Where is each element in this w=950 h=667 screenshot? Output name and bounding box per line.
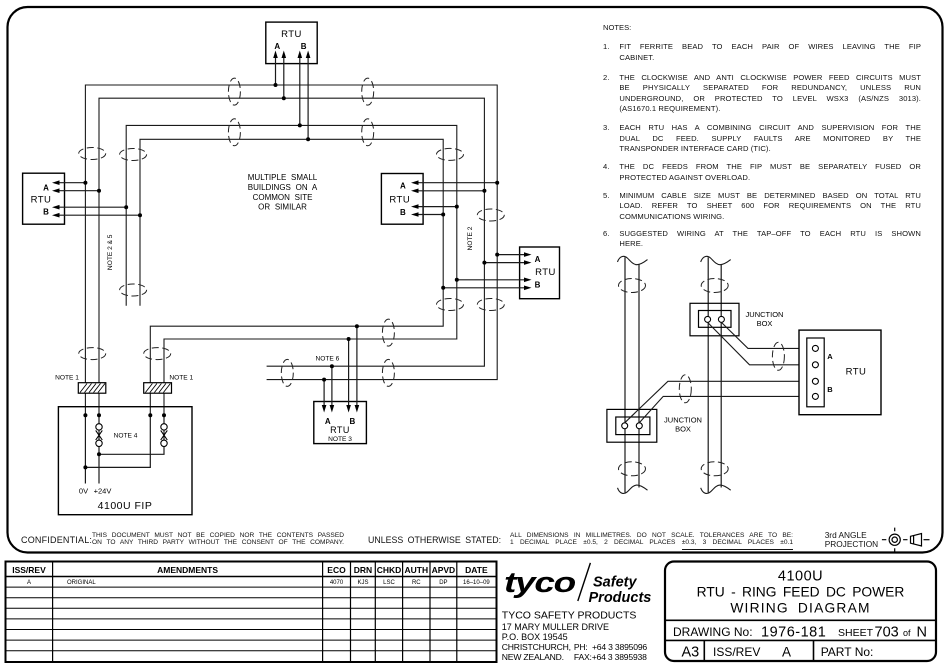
junction dot left RTU B2: [138, 213, 142, 217]
junction dot top RTU B1: [298, 123, 302, 127]
svg-text:A: A: [27, 580, 31, 586]
junction dot top RTU A1: [274, 83, 278, 87]
ferrite bead detail right pair bottom: [701, 462, 728, 476]
ferrite bead note6 pair right: [382, 359, 394, 386]
ferrite bead FIP gland pair 2: [144, 348, 171, 360]
svg-text:RTU: RTU: [535, 267, 556, 278]
detail cable pair left wire 1: [624, 257, 626, 492]
ferrite bead inner-top pair left: [228, 119, 240, 146]
junction dot left RTU B1: [124, 205, 128, 209]
svg-text:ISS/REV: ISS/REV: [12, 565, 46, 575]
ferrite bead inner-right pair upper: [437, 148, 464, 160]
third angle projection symbol cone: [911, 534, 930, 547]
RTU detail terminal strip: [807, 338, 824, 407]
junction dot middle-right RTU A1: [495, 181, 499, 185]
svg-text:OR SIMILAR: OR SIMILAR: [258, 203, 307, 212]
detail cable pair left wire 2: [638, 265, 640, 488]
arrowhead right outer RTU B1: [524, 278, 532, 283]
svg-text:0V: 0V: [79, 487, 88, 496]
svg-text:A: A: [43, 183, 49, 192]
junction box upper terminal 2: [718, 316, 724, 322]
junction dot top RTU A2: [282, 96, 286, 100]
arrowhead top RTU A2: [282, 51, 287, 59]
wire left RTU A1: [56, 182, 86, 184]
ferrite bead outer-top pair right: [362, 78, 374, 105]
notes column: [603, 23, 631, 32]
svg-text:Safety: Safety: [593, 575, 637, 591]
svg-text:DATE: DATE: [465, 565, 488, 575]
wire outer-ring feed wire 2: [99, 98, 484, 415]
svg-text:AMENDMENTS: AMENDMENTS: [157, 565, 218, 575]
note 3 combining circuit: [603, 123, 921, 155]
svg-text:RTU: RTU: [31, 195, 52, 206]
ferrite bead detail A-pair tail: [772, 342, 784, 370]
wire FIP feed 1 (0V): [84, 415, 86, 483]
svg-text:PH: +64 3 3895096: PH: +64 3 3895096: [574, 642, 648, 652]
svg-text:BOX: BOX: [675, 425, 691, 434]
ferrite bead inner-left pair: [120, 149, 147, 161]
ferrite bead detail left pair top: [619, 279, 646, 293]
wire inner-ring feed wire 2: [126, 125, 457, 415]
svg-text:LSC: LSC: [383, 580, 395, 586]
svg-text:B: B: [827, 385, 833, 394]
svg-text:KJS: KJS: [357, 580, 368, 586]
junction dot middle-right RTU B2: [441, 213, 445, 217]
4100U FIP cabinet box: [58, 407, 192, 515]
junction dot FIP wire2 top: [97, 413, 101, 417]
ferrite bead inner-left stub end: [120, 284, 147, 296]
tyco logo slash: [578, 563, 591, 601]
junction dot FIP wire1 top: [83, 413, 87, 417]
wire left RTU A2: [56, 190, 100, 192]
tolerances underline rule: [682, 549, 793, 550]
svg-text:A: A: [274, 42, 280, 51]
wire right outer RTU A1: [497, 254, 528, 256]
ferrite bead detail left pair bottom: [619, 462, 646, 476]
confidential label: [21, 535, 92, 545]
wire middle-right RTU A2: [415, 190, 485, 192]
junction box lower inner: [616, 417, 650, 435]
note 5 cable size: [603, 191, 921, 223]
svg-text:RTU: RTU: [846, 367, 867, 378]
arrowhead top RTU B2: [306, 51, 311, 59]
svg-text:DRAWING No:: DRAWING No:: [673, 625, 753, 639]
arrowhead bottom RTU A2: [330, 405, 335, 413]
wire junction box lower to RTU terminal B1: [625, 381, 813, 423]
wire junction box upper to RTU terminal A1: [721, 322, 812, 348]
svg-text:B: B: [350, 417, 356, 426]
arrowhead middle-right RTU B2: [411, 212, 419, 217]
wire right outer RTU B1: [457, 279, 528, 281]
svg-text:ECO: ECO: [327, 565, 346, 575]
amendments table outer border: [6, 562, 497, 663]
RTU bottom tap-off box (NOTE 3): [314, 402, 367, 444]
junction dot right outer RTU B1: [455, 278, 459, 282]
ferrite bead inner-right pair lower: [437, 299, 464, 311]
label JUNCTION BOX upper: [746, 310, 784, 328]
junction dot bottom RTU B2: [355, 324, 359, 328]
svg-text:17 MARY MULLER DRIVE: 17 MARY MULLER DRIVE: [502, 622, 609, 632]
cable break squiggle right pair bottom: [701, 485, 731, 493]
svg-text:COMMON SITE: COMMON SITE: [253, 193, 313, 202]
cable break squiggle left pair top: [618, 256, 648, 264]
ferrite bead outer-left pair: [79, 148, 106, 160]
RTU detail terminal B1: [812, 378, 818, 384]
junction dot FIP wire4 top: [162, 413, 166, 417]
junction dot right outer RTU A2: [482, 261, 486, 265]
wire top RTU B2 drop: [307, 54, 309, 139]
junction box lower terminal 2: [636, 423, 642, 429]
svg-text:A: A: [400, 182, 406, 191]
svg-text:RTU: RTU: [389, 195, 410, 206]
tyco address block: [502, 609, 648, 662]
junction dot top RTU B2: [306, 137, 310, 141]
arrowhead right outer RTU A1: [524, 252, 532, 257]
svg-text:SHEET: SHEET: [838, 627, 874, 639]
wire top RTU A1 drop: [275, 54, 277, 85]
RTU top tap-off box: [266, 22, 317, 64]
ferrite bead outer-right pair upper: [477, 209, 504, 221]
fuse F1 on +24V feed wire2 (NOTE 4): [96, 424, 103, 447]
note 4 separately fused: [603, 162, 921, 183]
amendments table row A entries: [27, 580, 490, 586]
ferrite bead detail right pair top: [701, 279, 728, 293]
arrowhead bottom RTU B1: [346, 405, 351, 413]
svg-text:ISS/REV: ISS/REV: [713, 645, 760, 659]
junction dot FIP +24V tie: [97, 452, 101, 456]
svg-text:4100U: 4100U: [778, 569, 823, 585]
amendments table column lines: [53, 562, 457, 663]
tolerances small print: [510, 532, 793, 548]
note 1 ferrite beads: [603, 42, 921, 63]
ferrite bead outer-right pair lower: [477, 299, 504, 311]
svg-text:NOTE 2: NOTE 2: [467, 226, 474, 250]
svg-text:A: A: [782, 645, 791, 660]
svg-text:MULTIPLE SMALL: MULTIPLE SMALL: [248, 173, 318, 182]
svg-text:NOTE 3: NOTE 3: [328, 436, 352, 443]
arrowhead top RTU B1: [298, 51, 303, 59]
title block drawing title text: [697, 569, 905, 616]
wire bottom RTU A2 riser: [331, 366, 333, 409]
wire FIP feed 3 return to 0V: [85, 415, 150, 467]
svg-text:1976-181: 1976-181: [761, 625, 826, 641]
RTU left tap-off box: [23, 173, 65, 224]
junction dot FIP wire3 top: [148, 413, 152, 417]
svg-text:NOTE 2 & 5: NOTE 2 & 5: [107, 234, 114, 270]
RTU right outer tap-off box: [520, 247, 560, 299]
svg-text:RTU: RTU: [281, 29, 302, 40]
RTU detail box: [799, 330, 881, 415]
svg-text:BOX: BOX: [757, 319, 773, 328]
svg-text:NOTE 6: NOTE 6: [315, 356, 339, 363]
wire FIP feed 2 (+24V): [98, 415, 100, 483]
junction dot bottom RTU A1: [322, 378, 326, 382]
wire top RTU A2 drop: [283, 54, 285, 98]
cable break squiggle left pair bottom: [618, 485, 648, 493]
junction dot middle-right RTU A2: [482, 189, 486, 193]
junction box upper terminal 1: [705, 316, 711, 322]
arrowhead right outer RTU B2: [524, 286, 532, 291]
svg-text:CHRISTCHURCH,: CHRISTCHURCH,: [502, 642, 571, 652]
ferrite bead inner-bottom pair: [382, 319, 394, 346]
svg-text:A3: A3: [682, 645, 700, 661]
svg-text:TYCO SAFETY PRODUCTS: TYCO SAFETY PRODUCTS: [502, 609, 637, 621]
svg-text:P.O. BOX 19545: P.O. BOX 19545: [502, 632, 568, 642]
junction box upper inner: [699, 311, 732, 328]
svg-text:A: A: [535, 255, 541, 264]
svg-text:BUILDINGS ON A: BUILDINGS ON A: [248, 183, 318, 192]
wire bottom RTU B1 riser: [348, 339, 350, 409]
svg-text:A: A: [827, 352, 833, 361]
amendments table row lines: [6, 577, 497, 651]
third angle projection symbol circle: [882, 528, 908, 552]
svg-text:B: B: [43, 208, 49, 217]
svg-text:RTU: RTU: [330, 425, 350, 435]
svg-text:RC: RC: [412, 580, 421, 586]
arrowhead middle-right RTU B1: [411, 204, 419, 209]
confidential small print: [92, 532, 344, 548]
cable gland left (hatched, NOTE 1): [78, 383, 106, 394]
svg-text:AUTH: AUTH: [404, 565, 428, 575]
arrowhead right outer RTU A2: [524, 260, 532, 265]
svg-text:4070: 4070: [330, 580, 344, 586]
svg-text:NOTE 1: NOTE 1: [55, 374, 79, 381]
svg-text:of: of: [903, 628, 911, 638]
junction dot FIP 0V tie: [83, 465, 87, 469]
svg-text:DP: DP: [439, 580, 447, 586]
detail cable pair right wire 2: [720, 265, 722, 488]
amendments table header text: [12, 565, 488, 575]
title block border: [665, 562, 936, 662]
svg-text:APVD: APVD: [432, 565, 456, 575]
RTU detail terminal A1: [812, 345, 818, 351]
junction box upper outer: [690, 303, 739, 336]
svg-text:16–10–09: 16–10–09: [463, 580, 490, 586]
svg-text:ORIGINAL: ORIGINAL: [67, 580, 96, 586]
svg-text:JUNCTION: JUNCTION: [664, 416, 702, 425]
svg-text:NEW ZEALAND.: NEW ZEALAND.: [502, 652, 564, 662]
title block divider lines: [665, 620, 936, 661]
junction dot right outer RTU B2: [441, 286, 445, 290]
wire junction box lower to RTU terminal B2: [639, 396, 812, 422]
svg-text:+24V: +24V: [94, 487, 112, 496]
svg-text:B: B: [535, 280, 541, 289]
svg-text:JUNCTION: JUNCTION: [746, 310, 784, 319]
unless otherwise stated label: [368, 535, 501, 545]
note text MULTIPLE SMALL BUILDINGS: [248, 173, 318, 212]
junction box lower outer: [607, 409, 657, 442]
title block drawing number row: [673, 625, 927, 641]
wire junction box upper to RTU terminal A2: [708, 322, 813, 364]
arrowhead left RTU A2: [52, 188, 60, 193]
wire middle-right RTU A1: [415, 182, 498, 184]
svg-text:FAX:+64 3 3895938: FAX:+64 3 3895938: [574, 652, 647, 662]
junction dot bottom RTU B1: [347, 337, 351, 341]
wire right outer RTU B2: [443, 287, 528, 289]
note 6 suggested wiring: [603, 229, 921, 250]
svg-text:B: B: [301, 42, 307, 51]
arrowhead middle-right RTU A1: [411, 180, 419, 185]
wire left RTU B1: [56, 206, 127, 208]
svg-text:WIRING DIAGRAM: WIRING DIAGRAM: [730, 601, 870, 616]
junction box lower terminal 1: [622, 423, 628, 429]
svg-text:NOTE 4: NOTE 4: [114, 433, 138, 440]
arrowhead bottom RTU B2: [355, 405, 360, 413]
wire bottom RTU A1 riser: [323, 380, 325, 409]
wire FIP feed 4 return to +24V: [99, 415, 164, 454]
junction dot left RTU A2: [97, 189, 101, 193]
svg-text:tyco: tyco: [504, 567, 575, 599]
wire outer-ring feed wire 1 (FIP +24V clockwise loop): [85, 85, 497, 415]
arrowhead top RTU A1: [273, 51, 278, 59]
svg-text:N: N: [917, 625, 927, 641]
RTU middle-right tap-off box: [381, 174, 423, 225]
ferrite bead note6 pair left: [281, 359, 293, 386]
third angle projection label: [825, 531, 878, 549]
RTU detail terminal B2: [812, 393, 818, 399]
note 2 physical separation: [603, 73, 921, 115]
svg-text:4100U FIP: 4100U FIP: [98, 500, 153, 512]
svg-text:PART No:: PART No:: [821, 645, 874, 659]
wire top RTU B1 drop: [299, 54, 301, 125]
wire middle-right RTU B2: [415, 214, 444, 216]
arrowhead bottom RTU A1: [322, 405, 327, 413]
detail cable pair right wire 1: [707, 257, 709, 492]
svg-text:Products: Products: [589, 590, 652, 606]
junction dot middle-right RTU B1: [455, 205, 459, 209]
ferrite bead FIP gland pair 1: [79, 348, 106, 360]
title block bottom row: [682, 645, 874, 661]
cable break squiggle right pair top: [701, 256, 731, 264]
junction dot left RTU A1: [83, 181, 87, 185]
wire middle-right RTU B1: [415, 206, 457, 208]
cable gland right (hatched, NOTE 1): [144, 383, 172, 394]
RTU detail terminal A2: [812, 362, 818, 368]
arrowhead left RTU B1: [52, 205, 60, 210]
junction dot bottom RTU A2: [330, 364, 334, 368]
wire inner-ring feed wire 1 (anticlockwise loop): [140, 139, 443, 415]
svg-text:DRN: DRN: [354, 565, 372, 575]
svg-text:B: B: [400, 208, 406, 217]
wire left RTU B2: [56, 214, 141, 216]
svg-text:NOTE 1: NOTE 1: [169, 374, 193, 381]
svg-text:RTU - RING FEED DC POWER: RTU - RING FEED DC POWER: [697, 585, 905, 600]
arrowhead middle-right RTU A2: [411, 189, 419, 194]
wire bottom RTU B2 riser: [356, 326, 358, 409]
wire right outer RTU A2: [484, 262, 528, 264]
junction dot right outer RTU A1: [495, 253, 499, 257]
label JUNCTION BOX lower: [664, 416, 702, 434]
ferrite bead outer-top pair left: [228, 78, 240, 105]
svg-text:703: 703: [875, 625, 899, 641]
ferrite bead detail B-pair tail: [679, 375, 691, 403]
ferrite bead inner-top pair right: [362, 119, 374, 146]
arrowhead left RTU A1: [52, 180, 60, 185]
svg-text:CHKD: CHKD: [377, 565, 402, 575]
fuse F2 on +24V feed wire4 (NOTE 4): [161, 424, 168, 447]
arrowhead left RTU B2: [52, 213, 60, 218]
